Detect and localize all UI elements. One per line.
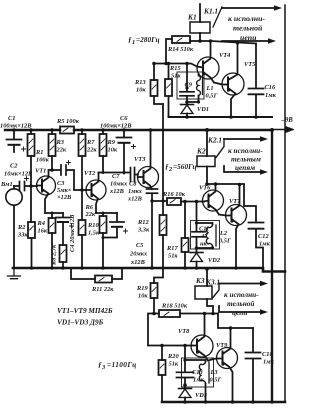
svg-text:С1: С1	[8, 115, 15, 122]
wire ch1 input	[154, 64, 197, 67]
svg-text:R19: R19	[136, 285, 148, 292]
capacitor C11	[196, 202, 198, 224]
svg-text:цепи: цепи	[240, 33, 257, 42]
svg-text:R17: R17	[166, 245, 178, 252]
inductor L2	[197, 223, 213, 225]
svg-text:51к: 51к	[171, 73, 181, 80]
svg-text:22к: 22к	[86, 147, 97, 154]
svg-text:–9В: –9В	[281, 117, 294, 124]
svg-text:R10: R10	[87, 222, 99, 229]
svg-text:R15: R15	[169, 65, 181, 72]
resistor R13	[154, 64, 163, 105]
svg-text:=1100Гц: =1100Гц	[107, 360, 137, 369]
svg-text:R1: R1	[35, 149, 43, 156]
transistor VT4	[197, 57, 219, 79]
svg-text:51к: 51к	[168, 253, 178, 260]
svg-text:20мкх: 20мкх	[129, 251, 148, 258]
svg-text:L3: L3	[210, 369, 219, 376]
wire ch1 arrow top	[222, 7, 276, 9]
wire ch1 collector line	[190, 41, 256, 44]
resistor R20	[161, 346, 163, 403]
resistor R9	[102, 130, 104, 172]
svg-text:R3: R3	[56, 139, 65, 146]
svg-text:1,5к: 1,5к	[88, 230, 100, 237]
transistor VT5	[222, 73, 244, 95]
emitter node wire VT2 / R10 / C5	[96, 212, 117, 214]
svg-text:К1.1: К1.1	[203, 7, 218, 16]
resistor R19	[151, 283, 158, 298]
wire common input bus	[162, 104, 164, 269]
resistor R10	[100, 216, 107, 233]
svg-text:5мк×: 5мк×	[57, 187, 72, 194]
svg-text:С9: С9	[185, 82, 193, 89]
wire right -9V bus	[271, 130, 273, 402]
svg-text:R12: R12	[137, 219, 149, 226]
svg-text:L2: L2	[219, 230, 228, 237]
svg-text:R13: R13	[134, 79, 146, 86]
capacitor C13	[184, 346, 186, 361]
resistor R7	[81, 130, 83, 190]
diode VD2	[196, 248, 198, 252]
contact K1.1	[213, 7, 222, 27]
resistor R15	[168, 64, 170, 118]
resistor R16	[167, 201, 204, 203]
svg-text:VT7: VT7	[229, 198, 241, 205]
capacitor C3	[50, 169, 60, 171]
wire ground rail	[13, 268, 285, 272]
capacitor C8	[147, 188, 158, 190]
svg-text:R11 22к: R11 22к	[91, 286, 114, 293]
svg-text:х12В: х12В	[130, 259, 146, 266]
svg-text:С5: С5	[136, 242, 144, 249]
svg-text:R18 510к: R18 510к	[161, 303, 188, 310]
svg-text:х12В: х12В	[109, 188, 125, 195]
relay K3	[195, 286, 212, 299]
wire ch3 base	[148, 345, 192, 347]
node amp output	[150, 199, 153, 202]
capacitor C9	[186, 64, 188, 92]
svg-text:0,5Г: 0,5Г	[219, 238, 231, 245]
svg-text:VT2: VT2	[84, 170, 96, 177]
resistor R12	[160, 215, 167, 235]
svg-text:тельной: тельной	[227, 299, 254, 308]
capacitor C6	[123, 130, 125, 137]
svg-text:1мк: 1мк	[193, 377, 205, 384]
svg-text:16к: 16к	[38, 228, 48, 235]
capacitor C16	[255, 44, 257, 89]
capacitor C1	[13, 130, 15, 139]
transistor VT1	[37, 176, 56, 195]
svg-text:С18: С18	[262, 351, 273, 358]
svg-text:1мк: 1мк	[263, 359, 275, 366]
resistor R3	[51, 130, 53, 170]
node -9V output arrow	[272, 127, 293, 132]
svg-text:VD3: VD3	[195, 392, 208, 399]
svg-text:С16: С16	[265, 84, 276, 91]
transistor VT8	[191, 335, 213, 357]
svg-text:R14 510к: R14 510к	[167, 46, 194, 53]
svg-text:С12: С12	[258, 233, 269, 240]
transistor VT2	[86, 180, 106, 200]
svg-text:1: 1	[132, 39, 135, 46]
ground symbol	[8, 268, 21, 279]
svg-text:47: 47	[200, 233, 208, 240]
resistor R1	[30, 130, 32, 186]
diode VD1	[186, 102, 188, 105]
svg-text:22к: 22к	[56, 147, 67, 154]
svg-text:С8: С8	[129, 181, 137, 188]
contact K3.1	[213, 284, 220, 299]
wire outer right line	[284, 5, 286, 402]
transistor VT7	[226, 205, 247, 226]
inductor L3	[185, 360, 206, 362]
svg-text:VT8: VT8	[178, 328, 190, 335]
svg-text:10к: 10к	[136, 87, 146, 94]
svg-text:R6: R6	[85, 204, 94, 211]
capacitor C18	[252, 328, 254, 352]
svg-text:VT5: VT5	[244, 61, 256, 68]
resistor R18	[148, 314, 218, 346]
resistor R5	[60, 127, 74, 134]
svg-text:VT9: VT9	[216, 342, 228, 349]
LC tank box ch2	[191, 221, 220, 250]
svg-text:С3: С3	[57, 180, 65, 187]
svg-text:10к: 10к	[138, 293, 148, 300]
svg-text:С6: С6	[120, 115, 128, 122]
relay K2	[197, 156, 215, 167]
capacitor C5	[116, 213, 118, 222]
capacitor C4	[62, 213, 64, 217]
svg-text:К2: К2	[196, 147, 206, 156]
resistor R6	[81, 190, 83, 268]
wire channel-3 bottom rail	[162, 401, 285, 404]
wire ch3 collector step	[218, 314, 253, 329]
svg-text:0,5Г: 0,5Г	[210, 377, 222, 384]
emitter node wire VT1	[45, 212, 63, 214]
wire bus to R19	[154, 269, 163, 283]
resistor R8	[60, 245, 67, 262]
svg-text:L1: L1	[206, 85, 214, 92]
svg-text:VT1: VT1	[35, 168, 46, 175]
svg-text:100мк×12В: 100мк×12В	[100, 123, 132, 130]
svg-text:R2: R2	[17, 224, 26, 231]
wire ch2 arrow bottom	[224, 166, 262, 172]
svg-text:=560Гц: =560Гц	[173, 162, 197, 171]
resistor R2	[30, 186, 33, 268]
wire ch2 arrow top	[224, 138, 262, 140]
wire ch3 arrow bottom	[219, 306, 262, 312]
svg-text:33к: 33к	[17, 232, 28, 239]
svg-text:VT3: VT3	[134, 156, 146, 163]
svg-text:к исполни-: к исполни-	[224, 290, 259, 299]
resistor R11	[71, 268, 122, 279]
svg-text:1мкх: 1мкх	[128, 188, 143, 195]
resistor R4	[51, 213, 53, 268]
LC tank box ch3	[182, 358, 214, 387]
svg-text:С2: С2	[10, 163, 18, 170]
svg-text:×12В: ×12В	[57, 194, 72, 201]
resistor R14	[166, 39, 190, 64]
diode VD3	[183, 383, 187, 387]
svg-text:цепи: цепи	[232, 308, 247, 317]
microphone BM1	[6, 189, 22, 205]
svg-text:R20: R20	[167, 353, 179, 360]
transistor VT3	[138, 167, 159, 188]
svg-text:к исполни-: к исполни-	[228, 14, 265, 23]
svg-text:С4 20мк×12В: С4 20мк×12В	[69, 214, 76, 252]
svg-text:нк: нк	[200, 241, 208, 248]
junction rail-bus	[270, 128, 274, 132]
capacitor C2	[14, 185, 19, 187]
svg-text:Вм1: Вм1	[0, 181, 13, 188]
svg-text:К2.1: К2.1	[207, 136, 222, 145]
svg-text:VD1: VD1	[197, 106, 209, 113]
svg-text:цепям: цепям	[235, 163, 255, 172]
wire ch2 collector line	[207, 183, 244, 185]
svg-text:К3: К3	[195, 276, 205, 285]
svg-text:С13: С13	[192, 369, 203, 376]
wire ch1 bottom	[169, 116, 273, 118]
transistor VT9	[217, 348, 238, 369]
svg-text:R8 2,7к: R8 2,7к	[51, 244, 58, 266]
svg-text:VD2: VD2	[208, 257, 221, 264]
transistor VT6	[203, 190, 224, 211]
svg-text:1мк: 1мк	[265, 92, 277, 99]
svg-text:10к: 10к	[108, 147, 118, 154]
svg-text:VT6: VT6	[199, 185, 211, 192]
svg-text:VD1–VD3 Д9Б: VD1–VD3 Д9Б	[57, 318, 104, 327]
svg-text:R9: R9	[107, 139, 116, 146]
resistor R17	[184, 202, 186, 269]
wire top -9V rail	[5, 129, 272, 132]
svg-text:3,3к: 3,3к	[137, 227, 150, 234]
svg-text:22к: 22к	[85, 211, 96, 218]
svg-text:VT4: VT4	[219, 52, 230, 59]
svg-text:С11: С11	[199, 226, 209, 233]
inductor L1	[198, 74, 200, 76]
wire ch1 arrow bottom	[222, 40, 270, 42]
svg-text:R7: R7	[86, 139, 95, 146]
svg-text:51к: 51к	[169, 361, 179, 368]
svg-text:10мк×12В: 10мк×12В	[4, 171, 33, 178]
svg-text:R4: R4	[37, 220, 45, 227]
svg-text:0,5Г: 0,5Г	[206, 93, 218, 100]
svg-text:х12В: х12В	[127, 196, 143, 203]
svg-text:100к: 100к	[36, 157, 50, 164]
svg-text:К3.1: К3.1	[205, 278, 220, 287]
svg-text:10мкх: 10мкх	[110, 181, 128, 188]
relay K1	[190, 22, 210, 33]
svg-text:К1: К1	[187, 13, 197, 22]
wire output to R16	[152, 200, 167, 202]
capacitor C12	[244, 185, 256, 223]
capacitor C7	[130, 168, 132, 182]
wire VT2 collector	[99, 172, 130, 174]
wire ch3 arrow top	[219, 283, 262, 285]
svg-text:тельной: тельной	[233, 24, 263, 33]
svg-text:=280Гц: =280Гц	[136, 35, 160, 44]
contact K2.1	[216, 139, 224, 158]
svg-text:R16 10к: R16 10к	[162, 191, 186, 198]
svg-text:VT1–VT9 МП42Б: VT1–VT9 МП42Б	[57, 306, 113, 315]
svg-text:100мк×12В: 100мк×12В	[0, 123, 32, 130]
svg-text:1мк: 1мк	[259, 241, 271, 248]
svg-text:R5 100к: R5 100к	[56, 118, 80, 125]
svg-text:С7: С7	[112, 173, 120, 180]
LC tank box ch1	[177, 72, 204, 99]
